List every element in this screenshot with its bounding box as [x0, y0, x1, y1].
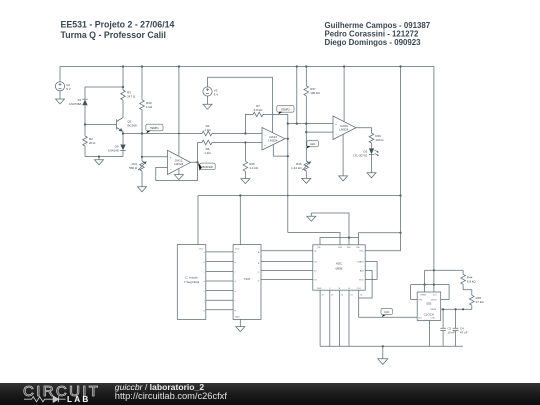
svg-text:+: +: [170, 156, 172, 160]
wire OA12 plus input: [142, 156, 168, 158]
wire OA34 Vplus: [272, 77, 274, 132]
svg-text:ALE: ALE: [360, 270, 365, 273]
ground bottom rail: [378, 346, 388, 364]
svg-text:DISCH: DISCH: [431, 299, 437, 301]
wire ADC bottom pins to ground rail: [320, 290, 349, 346]
7-segment display U1: [177, 245, 206, 320]
wire comparator input net A: [287, 123, 333, 125]
resistor R5: [198, 140, 246, 162]
footer bar: [0, 383, 540, 405]
svg-text:−: −: [264, 134, 266, 138]
timer 555 U4: [417, 292, 441, 320]
svg-text:Diego Domingos - 090923: Diego Domingos - 090923: [325, 38, 422, 47]
svg-text:VCC: VCC: [359, 251, 364, 253]
svg-text:VCC: VCC: [235, 248, 240, 250]
svg-text:LM324: LM324: [268, 139, 278, 143]
svg-text:5 V: 5 V: [66, 87, 71, 91]
svg-text:6.8 kΩ: 6.8 kΩ: [254, 108, 264, 112]
svg-text:GND: GND: [235, 317, 240, 319]
svg-text:10: 10: [360, 295, 362, 297]
svg-text:23: 23: [350, 295, 352, 297]
svg-text:7447: 7447: [244, 277, 251, 281]
svg-text:+: +: [264, 143, 266, 147]
svg-text:27 kΩ: 27 kΩ: [476, 300, 485, 304]
wire bottom of Q1 cell: [85, 156, 123, 158]
capacitor C4: [453, 308, 468, 346]
svg-text:7 Seg Displ: 7 Seg Displ: [184, 280, 200, 284]
ground under R41: [138, 187, 147, 192]
svg-text:BC308: BC308: [128, 124, 138, 128]
wire rail drop at 296.8: [296, 65, 298, 123]
voltage source V2: [55, 67, 70, 92]
wire top 5V rail: [60, 66, 434, 68]
ground under V3: [203, 96, 212, 109]
transistor Q1: [85, 118, 137, 134]
svg-text:1 kΩ: 1 kΩ: [204, 151, 211, 155]
svg-text:BUFFER: BUFFER: [202, 165, 213, 169]
svg-text:CLK: CLK: [384, 310, 389, 314]
svg-text:CLOCK: CLOCK: [424, 312, 434, 316]
resistor R45: [441, 290, 485, 311]
resistor R40: [140, 65, 153, 133]
ground under V2: [56, 91, 65, 104]
svg-text:TRIG: TRIG: [418, 299, 423, 301]
svg-text:LM324: LM324: [174, 162, 184, 166]
svg-text:GND: GND: [317, 288, 322, 290]
wire 555 control to ground rail: [429, 320, 431, 346]
wire TEMP1 net: [123, 133, 202, 135]
svg-text:LTL-30702: LTL-30702: [353, 153, 368, 157]
resistor R7 feedback: [245, 104, 287, 134]
svg-text:1 kΩ: 1 kΩ: [146, 105, 153, 109]
wire 7447 VCC drop: [239, 196, 241, 245]
resistor R37: [304, 65, 321, 123]
node flag CLK: [381, 308, 392, 317]
svg-text:VCC: VCC: [199, 248, 204, 250]
ground under R25: [241, 179, 250, 184]
svg-text:0808: 0808: [336, 266, 343, 270]
wire bottom ground rail: [320, 345, 463, 347]
wire D1 branch top: [85, 87, 123, 99]
svg-text:1 kΩ: 1 kΩ: [204, 128, 211, 132]
svg-text:25: 25: [331, 295, 333, 297]
node flag TEMP2: [277, 106, 294, 115]
op-amp OA56: [333, 116, 356, 140]
wire pot branch: [141, 134, 143, 162]
ground OA12 Vminus: [174, 169, 183, 180]
svg-text:47 nF: 47 nF: [460, 330, 468, 334]
svg-text:13: 13: [322, 295, 324, 297]
svg-text:http://circuitlab.com/c26cfxf: http://circuitlab.com/c26cfxf: [115, 391, 228, 401]
ground under R46: [302, 178, 311, 183]
svg-text:20 Ω: 20 Ω: [89, 141, 96, 145]
svg-text:TEMP1: TEMP1: [150, 126, 159, 130]
ground Q1 cell: [95, 156, 104, 165]
ground REF- net: [307, 213, 349, 238]
decoder 7447 U2: [233, 245, 261, 320]
node pot top junction: [141, 156, 143, 158]
resistor R4: [202, 124, 245, 136]
ADC 0808 U3: [313, 245, 365, 297]
svg-text:RESET: RESET: [421, 294, 428, 296]
svg-text:c: c: [235, 272, 236, 274]
wire ALE to clock net: [359, 271, 372, 299]
node emitter junction: [122, 132, 124, 134]
node base junction: [84, 123, 86, 125]
capacitor C3: [440, 308, 455, 346]
resistor R36: [356, 128, 384, 149]
svg-text:EOC: EOC: [359, 279, 364, 281]
resistor R44: [461, 270, 477, 290]
svg-text:LED: LED: [310, 142, 315, 146]
wire OA12 Vplus from rail: [178, 65, 180, 155]
node flag BUFFER: [198, 163, 215, 171]
node flag LED: [306, 140, 318, 148]
svg-text:4.4 kΩ: 4.4 kΩ: [249, 166, 259, 170]
svg-text:1N4148: 1N4148: [108, 149, 119, 153]
svg-text:560 Ω: 560 Ω: [129, 166, 138, 170]
logo CircuitLab: [23, 383, 100, 404]
svg-text:+: +: [335, 122, 337, 126]
svg-text:100 Ω: 100 Ω: [375, 138, 384, 142]
svg-text:−: −: [335, 132, 337, 136]
svg-text:100 kΩ: 100 kΩ: [310, 91, 320, 95]
svg-text:ADC: ADC: [336, 261, 343, 265]
svg-text:START: START: [357, 261, 364, 264]
potentiometer R41: [129, 161, 146, 187]
wire ADC top pin stubs and nets: [288, 232, 402, 245]
LED D3: [353, 148, 379, 172]
wire CLK net to 555: [359, 290, 418, 317]
op-amp OA12: [168, 150, 191, 174]
svg-text:RF-: RF-: [347, 247, 351, 249]
wire 555 reset vcc net: [411, 270, 464, 299]
node flag TEMP1: [146, 124, 163, 133]
svg-text:1N4738A: 1N4738A: [69, 102, 82, 106]
svg-text:EE531 - Projeto 2 - 27/06/14: EE531 - Projeto 2 - 27/06/14: [61, 20, 175, 30]
svg-text:THRES: THRES: [430, 309, 437, 311]
node R40 bottom junction: [141, 132, 143, 134]
voltage source V3: [203, 77, 273, 96]
names text block right: [325, 21, 431, 47]
node junction at R3 top: [122, 65, 124, 88]
diode D9: [108, 134, 126, 157]
wire OA12 output and feedback loop: [156, 161, 199, 180]
svg-text:Turma Q - Professor Calil: Turma Q - Professor Calil: [61, 30, 166, 40]
wire OA56 minus input: [305, 124, 333, 161]
ground OA56 Vminus: [339, 134, 348, 181]
ground under 7447: [236, 319, 245, 331]
svg-text:247 Ω: 247 Ω: [127, 95, 136, 99]
wire 555 VCC drop from top rail: [433, 67, 435, 293]
svg-text:5 V: 5 V: [214, 92, 219, 96]
footer user and url text: [115, 382, 228, 401]
diode D1: [69, 98, 88, 124]
resistor R3: [121, 67, 136, 118]
wire BCD lines 7447 to ADC: [261, 251, 313, 280]
svg-text:LAB: LAB: [67, 395, 90, 404]
node OA34 input junctions: [244, 132, 262, 143]
svg-text:CTRL: CTRL: [431, 317, 436, 319]
wire OA34 Vminus loop: [273, 145, 289, 158]
svg-text:555: 555: [426, 301, 431, 305]
svg-text:c: c: [203, 272, 204, 274]
svg-text:TEMP2: TEMP2: [281, 108, 290, 112]
svg-text:6.8 kΩ: 6.8 kΩ: [467, 279, 477, 283]
resistor R25: [243, 143, 259, 179]
wire OA34 output / TEMP2 vertical: [285, 114, 289, 232]
title text block left: [61, 20, 175, 41]
op-amp OA34: [262, 128, 285, 151]
wire START EOC loop: [365, 262, 377, 280]
wire segment lines display to 7447: [206, 252, 233, 310]
svg-text:CLK: CLK: [357, 288, 362, 290]
svg-text:24: 24: [341, 295, 343, 297]
svg-text:−: −: [170, 167, 172, 171]
potentiometer R46: [291, 161, 311, 178]
ground under D3: [367, 173, 376, 178]
wire display VCC drop: [197, 196, 199, 245]
wire VCC rail for logic ICs: [198, 194, 402, 196]
wire VCC drop right column: [365, 65, 401, 250]
svg-text:10 nF: 10 nF: [447, 330, 455, 334]
svg-text:1.44 kΩ: 1.44 kΩ: [291, 166, 302, 170]
resistor R2: [83, 125, 96, 157]
svg-text:LM324: LM324: [339, 128, 349, 132]
wire OA56 Vplus from rail: [343, 65, 345, 121]
